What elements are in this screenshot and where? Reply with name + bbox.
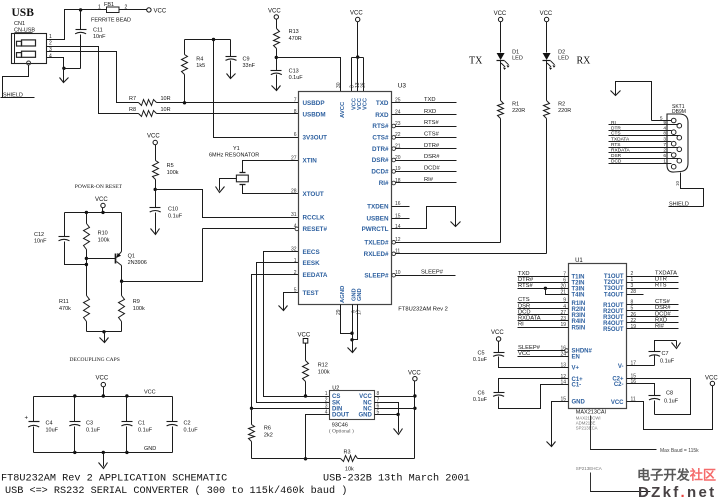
svg-text:EECS: EECS: [303, 249, 320, 256]
svg-text:SLEEP#: SLEEP#: [364, 272, 389, 279]
capacitor C1 0.1uF: [126, 397, 128, 422]
svg-text:TXD: TXD: [424, 97, 436, 103]
svg-text:R3IN: R3IN: [572, 313, 586, 319]
svg-text:0.1uF: 0.1uF: [138, 428, 153, 434]
node 3V3 junction: [212, 38, 215, 41]
ground below C10: [155, 223, 157, 234]
svg-text:C7: C7: [662, 351, 669, 357]
CN1 shield pin: [27, 61, 31, 65]
wire C2+ loop: [627, 379, 691, 415]
junction C11 top: [79, 8, 82, 11]
capacitor C11 10nF: [80, 10, 82, 30]
wire 3V3OUT: [214, 40, 299, 138]
svg-text:R1OUT: R1OUT: [603, 303, 624, 309]
wire net DSR# from U1: [627, 310, 679, 312]
svg-text:NC: NC: [363, 400, 372, 406]
wire net TXD into U1: [518, 276, 569, 278]
svg-text:DCD: DCD: [611, 159, 622, 165]
capacitor C13 0.1uF: [271, 70, 282, 72]
bottom wire to R3: [252, 458, 341, 460]
svg-text:VCC: VCC: [298, 333, 311, 339]
connector SKT1 body: [667, 114, 688, 172]
svg-text:R2OUT: R2OUT: [603, 309, 624, 315]
svg-text:100k: 100k: [318, 370, 330, 376]
ground hook C7: [676, 341, 678, 347]
svg-text:VCC: VCC: [95, 197, 108, 203]
svg-text:DSR: DSR: [518, 303, 530, 309]
wire RXDATA to SKT1 pin 2: [609, 152, 672, 154]
svg-text:DCD#: DCD#: [371, 169, 389, 176]
wire net SLEEP# into U1: [518, 350, 565, 352]
svg-text:VCC: VCC: [611, 400, 624, 406]
ground below C13: [276, 79, 278, 91]
node AVCC junction: [275, 56, 278, 59]
svg-text:RTS: RTS: [611, 142, 621, 148]
resistor R5 100k: [155, 145, 157, 161]
svg-text:C4: C4: [46, 421, 53, 427]
wire net RI into U1: [518, 327, 569, 329]
svg-text:VCC: VCC: [350, 11, 363, 17]
wire R1 to TXLED#: [500, 119, 502, 243]
wire TXDEN stub: [392, 206, 410, 208]
svg-text:TXDEN: TXDEN: [367, 203, 389, 210]
svg-text:POWER-ON RESET: POWER-ON RESET: [75, 184, 123, 190]
capacitor C3 0.1uF: [74, 397, 76, 422]
svg-text:R2: R2: [558, 102, 565, 108]
svg-text:USB-232B 13th March 2001: USB-232B 13th March 2001: [323, 473, 470, 485]
svg-text:FERRITE BEAD: FERRITE BEAD: [91, 18, 131, 24]
svg-text:RXD: RXD: [424, 109, 436, 115]
wire PWRCTL to ground hook: [392, 207, 456, 229]
svg-text:DTR#: DTR#: [372, 146, 389, 153]
wire net DCD# from U3: [396, 171, 457, 173]
svg-text:DIN: DIN: [332, 407, 342, 413]
svg-text:10: 10: [675, 180, 680, 186]
wire C1+ to C6: [499, 379, 569, 393]
wire C5 to V+: [499, 357, 569, 368]
svg-text:R2IN: R2IN: [572, 307, 586, 313]
svg-text:0.1uF: 0.1uF: [184, 428, 199, 434]
wire DOUT: [306, 415, 330, 459]
svg-text:5: 5: [294, 288, 297, 294]
svg-text:3: 3: [49, 47, 52, 53]
svg-text:2k2: 2k2: [264, 433, 273, 439]
svg-text:C9: C9: [243, 57, 250, 63]
wire net DCD# from U1: [627, 316, 679, 318]
svg-text:100k: 100k: [167, 170, 179, 176]
svg-text:0.1uF: 0.1uF: [289, 75, 304, 81]
resistor R13 470R: [276, 20, 278, 29]
resistor R6 2k2: [251, 409, 253, 425]
svg-text:Max Baud = 115k: Max Baud = 115k: [660, 448, 699, 454]
svg-text:0.1uF: 0.1uF: [660, 359, 675, 365]
svg-text:TEST: TEST: [303, 290, 319, 297]
wire net RTS# from U3: [396, 126, 457, 128]
resistor R4 1k5: [184, 40, 186, 55]
svg-text:电子开发社区: 电子开发社区: [637, 467, 716, 483]
svg-text:2: 2: [663, 148, 666, 154]
POR bottom rail: [87, 331, 122, 333]
wire R7 to USBDP: [157, 102, 299, 104]
svg-text:4: 4: [663, 126, 666, 132]
wire XTOUT: [243, 185, 299, 194]
svg-text:R4: R4: [196, 57, 203, 63]
svg-text:Q1: Q1: [128, 254, 135, 260]
wire net RXD from U3: [392, 114, 457, 116]
wire TXLED#: [396, 242, 501, 244]
capacitor C12 10nF: [64, 213, 66, 237]
svg-text:U3: U3: [398, 83, 407, 90]
svg-text:C6: C6: [477, 391, 484, 397]
svg-text:USB: USB: [12, 7, 35, 19]
svg-text:R3OUT: R3OUT: [603, 315, 624, 321]
POR top rail: [65, 212, 122, 214]
resistor R1 220R: [500, 61, 502, 101]
CN1 pin2 wire to R8: [47, 47, 139, 114]
svg-text:220R: 220R: [512, 108, 525, 114]
svg-text:CTS: CTS: [611, 131, 621, 137]
wire SLEEP# net: [396, 275, 456, 277]
svg-text:XTIN: XTIN: [303, 158, 318, 165]
svg-text:R1: R1: [512, 102, 519, 108]
svg-text:6MHz RESONATOR: 6MHz RESONATOR: [209, 153, 259, 159]
capacitor C2 0.1uF: [172, 397, 174, 422]
wire collector to RESET#: [122, 229, 203, 282]
transistor Q1 2N3906: [115, 254, 117, 264]
svg-text:26: 26: [361, 82, 367, 88]
wire RXLED#: [396, 253, 547, 255]
svg-text:RI: RI: [518, 322, 524, 328]
svg-text:R7: R7: [129, 96, 136, 102]
svg-text:3: 3: [663, 137, 666, 143]
svg-text:R4IN: R4IN: [572, 319, 586, 325]
svg-text:CTS#: CTS#: [655, 299, 671, 305]
svg-text:VCC: VCC: [359, 394, 372, 400]
svg-text:DSR#: DSR#: [424, 154, 440, 160]
wire V- to C7: [627, 365, 655, 367]
svg-text:VCC: VCC: [494, 11, 507, 17]
svg-text:6: 6: [663, 153, 666, 159]
resonator Y1 body: [240, 172, 246, 174]
svg-text:R1IN: R1IN: [572, 301, 586, 307]
VCC terminal U1 right: [710, 381, 714, 385]
wire net DTR# from U3: [396, 148, 457, 150]
svg-text:2: 2: [49, 41, 52, 47]
resistor R10 100k: [86, 213, 88, 224]
svg-text:C13: C13: [289, 69, 299, 75]
svg-text:VCC: VCC: [518, 351, 530, 357]
node R5/C10: [154, 188, 157, 191]
svg-text:RI#: RI#: [655, 324, 665, 330]
svg-text:DOUT: DOUT: [332, 413, 349, 419]
svg-text:R12: R12: [318, 363, 328, 369]
wire DSR to SKT1 pin 6: [609, 158, 679, 160]
wire T4OUT stub: [627, 294, 644, 296]
svg-text:R3: R3: [344, 450, 351, 456]
svg-text:C3: C3: [86, 421, 93, 427]
svg-text:DECOUPLING CAPS: DECOUPLING CAPS: [70, 357, 120, 363]
svg-text:3V3OUT: 3V3OUT: [303, 135, 328, 142]
svg-text:FT8U232AM Rev 2 APPLICATION SC: FT8U232AM Rev 2 APPLICATION SCHEMATIC: [1, 474, 227, 485]
svg-text:DCD#: DCD#: [424, 166, 441, 172]
U1 SHDN# bubble: [565, 349, 569, 353]
wire net CTS# from U1: [627, 304, 679, 306]
wire net DSR into U1: [518, 308, 569, 310]
svg-text:GND: GND: [357, 288, 363, 301]
svg-text:0.1uF: 0.1uF: [664, 399, 679, 405]
svg-text:Y1: Y1: [233, 146, 240, 152]
svg-text:9: 9: [663, 120, 666, 126]
svg-text:7: 7: [663, 142, 666, 148]
U3 right pin bubbles: [392, 124, 396, 128]
wire R2 to RXLED#: [546, 119, 548, 254]
USB connector CN1 body: [12, 34, 47, 64]
capacitor C7 0.1uF: [654, 356, 656, 366]
wire U1 GND to ground: [552, 402, 569, 441]
svg-text:10nF: 10nF: [93, 34, 106, 40]
svg-text:GND: GND: [572, 400, 586, 406]
resistor R3 10k: [341, 456, 358, 462]
svg-text:EN: EN: [572, 355, 580, 361]
svg-text:10k: 10k: [345, 467, 354, 473]
wire net RTS# into U1: [518, 288, 569, 290]
wire U2 NC6: [375, 408, 415, 410]
capacitor C8 0.1uF: [627, 384, 655, 396]
U3 RESET# bubble: [295, 227, 299, 231]
capacitor C4 10uF: [33, 397, 35, 422]
svg-text:CN1: CN1: [14, 21, 25, 27]
svg-text:TXLED#: TXLED#: [364, 240, 389, 247]
svg-text:DZkf.net: DZkf.net: [638, 484, 716, 500]
wire RI to SKT1 pin 9: [609, 124, 679, 126]
wire net DCD into U1: [518, 314, 569, 316]
svg-text:RCCLK: RCCLK: [303, 215, 325, 222]
svg-text:RI#: RI#: [379, 180, 389, 187]
svg-text:8: 8: [294, 109, 297, 115]
decoupling bottom rail GND: [34, 452, 173, 454]
svg-text:USBEN: USBEN: [366, 216, 388, 223]
node EEDATA/R6: [250, 407, 253, 410]
svg-text:R4OUT: R4OUT: [603, 321, 624, 327]
wire Q1 base: [87, 258, 116, 260]
wire U2 NC7: [375, 403, 399, 415]
svg-text:0.1uF: 0.1uF: [473, 397, 488, 403]
svg-text:PWRCTL: PWRCTL: [362, 226, 389, 233]
svg-text:RXLED#: RXLED#: [364, 251, 389, 258]
svg-text:8: 8: [663, 131, 666, 137]
svg-text:R6: R6: [264, 426, 271, 432]
wire net RXDATA into U1: [518, 320, 569, 322]
svg-text:RXDATA: RXDATA: [518, 316, 541, 322]
node Q1 collector: [120, 280, 123, 283]
ground below C9: [230, 67, 232, 79]
svg-text:RI: RI: [611, 120, 616, 126]
ground hook near SKT1: [616, 82, 652, 121]
svg-text:C1: C1: [138, 421, 145, 427]
svg-text:0.1uF: 0.1uF: [473, 357, 488, 363]
svg-text:VCC: VCC: [268, 9, 281, 15]
svg-text:CTS#: CTS#: [424, 132, 440, 138]
wire net TXD from U3: [392, 102, 457, 104]
svg-text:V-: V-: [618, 364, 624, 370]
svg-text:19: 19: [631, 324, 637, 330]
svg-text:R5OUT: R5OUT: [603, 327, 624, 333]
svg-text:10uF: 10uF: [46, 428, 59, 434]
svg-text:SP213EHCA: SP213EHCA: [576, 466, 602, 471]
wire DCD to SKT1 pin 1: [609, 163, 672, 165]
wire EECS: [264, 252, 330, 397]
svg-text:RXD: RXD: [375, 112, 389, 119]
svg-text:10nF: 10nF: [34, 239, 47, 245]
wire net CTS# from U3: [396, 137, 457, 139]
svg-text:NC: NC: [363, 407, 372, 413]
svg-text:TX: TX: [469, 56, 483, 67]
wire net RXD from U1: [627, 322, 679, 324]
SKT1 shield wire: [681, 173, 704, 207]
svg-text:AGND: AGND: [340, 286, 346, 303]
svg-text:28: 28: [291, 188, 297, 194]
resistor R12 100k: [305, 344, 307, 361]
svg-text:SP213ECA: SP213ECA: [576, 425, 598, 430]
max baud bracket 460k: [591, 473, 651, 492]
resistor R11 470k: [84, 296, 90, 322]
wire EESK: [257, 263, 330, 403]
svg-text:0.1uF: 0.1uF: [86, 428, 101, 434]
svg-text:RTS#: RTS#: [424, 120, 439, 126]
svg-text:RI#: RI#: [424, 177, 434, 183]
svg-text:30: 30: [336, 82, 342, 88]
svg-text:C2-: C2-: [614, 382, 624, 388]
wire USBEN stub: [392, 218, 410, 220]
svg-text:EESK: EESK: [303, 260, 321, 267]
svg-text:LED: LED: [512, 56, 523, 62]
svg-text:C1-: C1-: [572, 383, 582, 389]
svg-text:SK: SK: [332, 400, 341, 406]
wire C6 to C1-: [499, 385, 569, 409]
wire U1 VCC to terminal: [627, 386, 713, 430]
wire net RI# from U3: [396, 182, 457, 184]
svg-text:GND: GND: [358, 413, 372, 419]
ground below C11: [63, 69, 65, 83]
svg-text:6: 6: [294, 132, 297, 138]
svg-text:C2: C2: [184, 421, 191, 427]
svg-text:USBDM: USBDM: [303, 112, 326, 119]
svg-text:GND: GND: [144, 446, 156, 452]
svg-text:RTS: RTS: [655, 283, 667, 289]
svg-text:VCC: VCC: [96, 376, 109, 382]
wire T4IN tie to RTS#: [544, 287, 547, 290]
CN1 pin4 ground wire: [47, 58, 64, 69]
ground decoupling: [103, 453, 105, 467]
wire net DTR# into U1: [518, 282, 569, 284]
svg-text:R9: R9: [133, 299, 140, 305]
svg-text:XTOUT: XTOUT: [303, 191, 324, 198]
svg-text:VCC: VCC: [154, 8, 167, 14]
wire R8 to USBDM: [157, 113, 299, 115]
U3 ground wires bottom: [341, 305, 353, 334]
wire DTR to SKT1 pin 4: [609, 130, 672, 132]
svg-text:VCC: VCC: [705, 376, 718, 382]
svg-text:RTS#: RTS#: [372, 123, 389, 130]
svg-text:10R: 10R: [161, 107, 171, 113]
svg-text:100k: 100k: [133, 306, 145, 312]
svg-text:220R: 220R: [558, 108, 571, 114]
VCC terminal after FB1: [147, 8, 151, 12]
svg-text:V+: V+: [572, 366, 580, 372]
svg-text:RXDATA: RXDATA: [611, 148, 631, 154]
svg-text:EEDATA: EEDATA: [303, 272, 328, 279]
svg-text:100k: 100k: [98, 238, 110, 244]
svg-text:VCC: VCC: [147, 134, 160, 140]
svg-text:CTS: CTS: [518, 297, 530, 303]
svg-text:R5IN: R5IN: [572, 325, 586, 331]
svg-text:RTS#: RTS#: [518, 283, 533, 289]
svg-text:R13: R13: [289, 29, 299, 35]
svg-text:VCC: VCC: [362, 98, 368, 110]
svg-text:1: 1: [294, 258, 297, 264]
capacitor C10 0.1uF: [155, 190, 157, 208]
SKT1 pin5 wire: [652, 120, 672, 122]
ground POR: [104, 332, 106, 343]
wire net CTS into U1: [518, 302, 569, 304]
wire TEST to ground: [284, 293, 299, 301]
wire net RTS from U1: [627, 288, 679, 290]
wire U2 GND to ground: [375, 414, 399, 416]
wire CTS to SKT1 pin 8: [609, 135, 679, 137]
svg-text:1: 1: [325, 391, 328, 397]
svg-text:3: 3: [325, 404, 328, 410]
svg-text:DTR: DTR: [611, 126, 621, 132]
wire TXDATA to SKT1 pin 3: [609, 141, 672, 143]
svg-text:4: 4: [49, 54, 52, 60]
resistor R9 100k: [121, 282, 123, 296]
svg-text:USBDP: USBDP: [303, 100, 325, 107]
svg-text:31: 31: [291, 212, 297, 218]
wire net DSR# from U3: [396, 160, 457, 162]
svg-text:CS: CS: [332, 394, 340, 400]
capacitor C6 0.1uF: [494, 392, 505, 394]
svg-text:470k: 470k: [59, 306, 71, 312]
svg-text:VCC: VCC: [540, 11, 553, 17]
svg-text:C8: C8: [666, 391, 673, 397]
svg-text:23: 23: [560, 316, 566, 322]
svg-text:T3OUT: T3OUT: [604, 286, 624, 292]
svg-text:10R: 10R: [161, 96, 171, 102]
wire net DTR from U1: [627, 282, 679, 284]
svg-text:VCC: VCC: [408, 371, 421, 377]
svg-text:27: 27: [291, 155, 297, 161]
wire net TXDATA from U1: [627, 276, 679, 278]
svg-text:T4OUT: T4OUT: [604, 292, 624, 298]
svg-text:SLEEP#: SLEEP#: [421, 269, 444, 275]
svg-text:R8: R8: [129, 107, 136, 113]
svg-text:DTR#: DTR#: [424, 143, 440, 149]
svg-text:VCC: VCC: [144, 390, 156, 396]
svg-text:R5: R5: [167, 163, 174, 169]
svg-text:( Optional ): ( Optional ): [329, 427, 354, 434]
svg-text:FT8U232AM Rev 2: FT8U232AM Rev 2: [398, 307, 448, 313]
svg-text:C10: C10: [168, 207, 178, 213]
svg-text:C11: C11: [93, 28, 103, 34]
svg-text:T4IN: T4IN: [572, 293, 585, 299]
CN1 pin1 wire to FB1: [47, 10, 107, 40]
svg-text:C12: C12: [34, 232, 44, 238]
svg-text:+: +: [25, 416, 29, 422]
wire XTIN: [243, 161, 299, 173]
resistor R2 220R: [546, 61, 548, 101]
svg-text:AVCC: AVCC: [340, 101, 346, 118]
svg-text:USB <=> RS232 SERIAL CONVERTER: USB <=> RS232 SERIAL CONVERTER ( 300 to …: [5, 485, 347, 497]
